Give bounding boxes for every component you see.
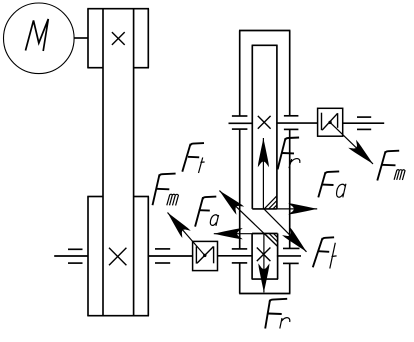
label Fm left bbox=[153, 174, 176, 206]
force Ft right arrowhead bbox=[282, 227, 310, 255]
motor M circle bbox=[4, 3, 75, 74]
shaft II axis segment box to gear bbox=[218, 255, 253, 257]
label Fr top bbox=[278, 138, 300, 170]
bevel cone tooth of Z2 with hatching bbox=[265, 233, 278, 246]
force Fr down arrowhead bbox=[258, 263, 269, 292]
label Fm right bbox=[377, 151, 399, 181]
shaft II axis mid segment bbox=[148, 255, 192, 257]
force Fr up vector line bbox=[262, 138, 264, 209]
label Ft right bbox=[313, 237, 334, 267]
application dot K1 bbox=[203, 254, 206, 257]
label Fr top subscript r bbox=[289, 159, 300, 169]
label Ft right subscript t bbox=[330, 243, 337, 269]
bearing B1 ticks bbox=[68, 249, 83, 263]
shaft I axis right end bbox=[343, 122, 385, 124]
force Fa right vector line bbox=[277, 208, 317, 210]
reducer outer housing bottom edge bbox=[239, 293, 290, 295]
shaft I axis left stub bbox=[229, 122, 253, 124]
shaft II axis left end bbox=[54, 255, 88, 257]
application dot K2 bbox=[328, 121, 331, 124]
force Fa right arrowhead bbox=[288, 203, 317, 214]
force Fm left arrowhead bbox=[163, 209, 190, 238]
force Fm right vector line bbox=[330, 122, 373, 163]
bevel cone tooth of Z1 with hatching bbox=[264, 196, 277, 209]
force Fa left vector line bbox=[214, 233, 265, 235]
motor shaft link bbox=[74, 37, 88, 39]
force Ft right vector line D1 bbox=[264, 209, 306, 252]
shaft II axis right segment bbox=[277, 255, 301, 257]
bearing B3 ticks bbox=[232, 116, 248, 129]
pulley P2 outline bbox=[87, 197, 149, 316]
coupling box K2 bbox=[318, 108, 343, 136]
label Fa left bbox=[195, 197, 216, 227]
force Fm left vector line bbox=[168, 213, 205, 256]
bearing B6 ticks bbox=[283, 248, 300, 263]
coupling K1 inner symbol bbox=[196, 246, 213, 263]
label Fm right subscript m bbox=[394, 170, 405, 180]
motor letter M bbox=[26, 19, 49, 51]
label Fr bottom subscript r bbox=[280, 318, 290, 329]
force Fr down vector line bbox=[263, 233, 265, 292]
reducer outer housing left line bbox=[239, 31, 241, 294]
force Fm right arrowhead bbox=[348, 140, 377, 168]
label Fm left subscript m bbox=[167, 194, 179, 205]
reducer outer housing top edge bbox=[239, 30, 290, 32]
force Ft left vector line D2 bbox=[219, 191, 277, 247]
bearing B2 ticks bbox=[155, 249, 170, 263]
label Fr bottom bbox=[265, 299, 287, 329]
bearing B7 ticks bbox=[357, 117, 371, 129]
reducer outer housing right line bbox=[289, 31, 291, 294]
label Ft upper-left subscript t bbox=[199, 158, 205, 174]
fixing cross X3 on shaft I gear bbox=[258, 116, 271, 129]
force Fa left arrowhead bbox=[214, 228, 243, 239]
force Ft left arrowhead bbox=[216, 187, 245, 215]
bevel pinion Z2 body (lower) bbox=[252, 233, 279, 279]
shaft I axis right segment bbox=[277, 122, 318, 124]
label Fa right bbox=[318, 171, 339, 197]
label Ft upper-left bbox=[182, 143, 204, 172]
coupling K2 inner symbol bbox=[322, 113, 338, 131]
belt lines bbox=[103, 9, 134, 316]
pulley P1 outline bbox=[87, 9, 149, 68]
fixing cross X2 on pulley P2 bbox=[109, 248, 126, 265]
bearing B4 ticks bbox=[284, 116, 299, 130]
fixing cross X1 on pulley P1 bbox=[112, 32, 125, 45]
bevel wheel Z1 body (upper) bbox=[252, 45, 278, 209]
bearing B5 ticks bbox=[232, 249, 247, 263]
force Fr up arrowhead bbox=[258, 138, 269, 167]
coupling box K1 bbox=[193, 241, 218, 270]
label Fa left subscript a bbox=[210, 215, 218, 226]
fixing cross X4 on shaft II gear bbox=[257, 248, 271, 262]
label Fa right subscript a bbox=[337, 184, 346, 198]
